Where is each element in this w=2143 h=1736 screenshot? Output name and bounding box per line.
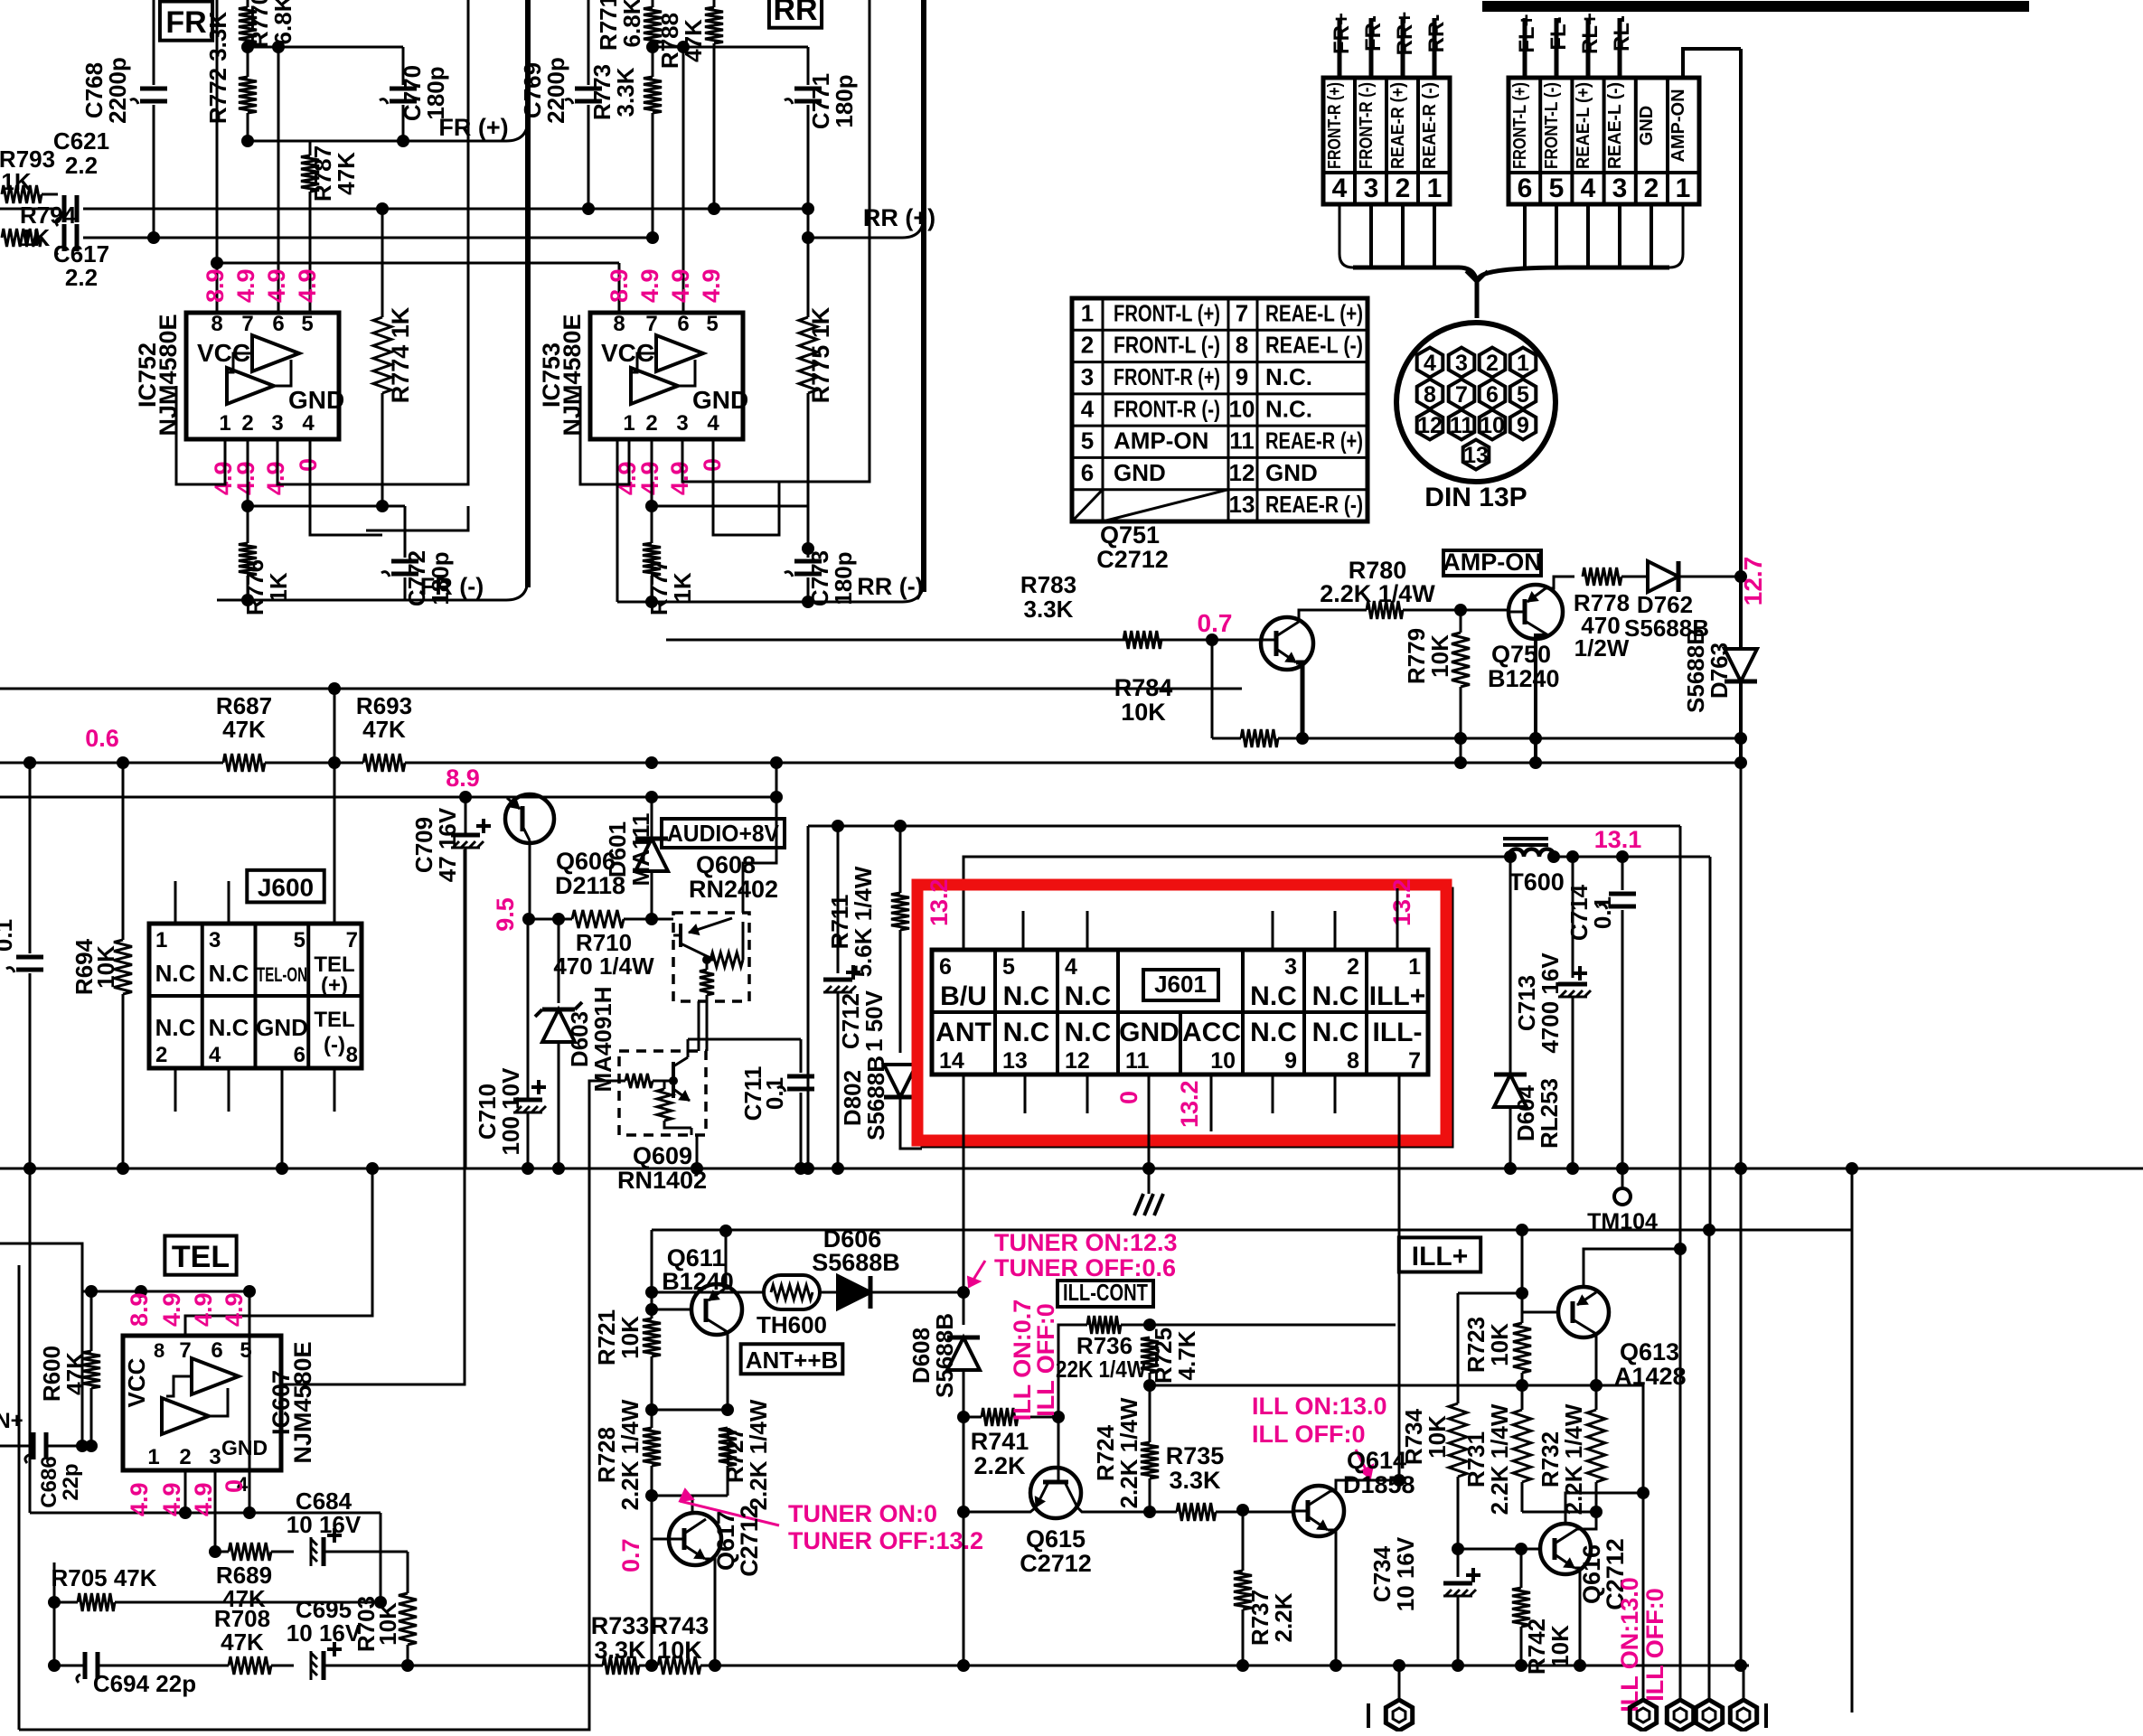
svg-text:GND: GND — [288, 386, 344, 414]
svg-text:DIN 13P: DIN 13P — [1424, 483, 1527, 512]
svg-text:47K: 47K — [333, 152, 360, 195]
svg-text:2: 2 — [155, 1043, 167, 1067]
wire — [248, 46, 403, 49]
svg-text:5: 5 — [1549, 174, 1565, 203]
wire — [153, 0, 155, 85]
label ILL-CONT — [1057, 1281, 1153, 1307]
svg-text:N.C: N.C — [1250, 1018, 1297, 1047]
resistor R779 10K — [1460, 610, 1462, 633]
svg-text:10K: 10K — [1486, 1323, 1513, 1366]
wire rail y882 8.9 — [0, 796, 776, 799]
svg-text:N+: N+ — [0, 1409, 23, 1433]
svg-text:4.7K: 4.7K — [1173, 1330, 1200, 1380]
svg-text:FRONT-R (+): FRONT-R (+) — [1114, 363, 1220, 390]
resistor R734 10K — [1457, 1293, 1460, 1403]
resistor R741 2.2K — [982, 1408, 1018, 1426]
inductor T600 — [1503, 837, 1548, 840]
pin 7 — [1449, 380, 1475, 409]
capacitor C695 10 16V — [311, 1642, 342, 1680]
pin 1 — [1510, 348, 1537, 378]
resistor R778 470 1/2W — [1583, 568, 1621, 586]
wire pin6 column IC753 — [682, 47, 685, 313]
svg-text:1K: 1K — [1, 168, 31, 195]
svg-text:TH600: TH600 — [757, 1311, 827, 1338]
wire collector line — [1546, 577, 1574, 588]
svg-text:470 1/4W: 470 1/4W — [553, 952, 654, 980]
capacitor C771 180p — [807, 47, 810, 85]
svg-text:0.7: 0.7 — [1198, 609, 1233, 637]
resistor R727 2.2K 1/4W — [719, 1428, 737, 1466]
svg-text:TUNER ON:12.3: TUNER ON:12.3 — [994, 1229, 1178, 1256]
resistor R743 10K — [658, 1656, 700, 1675]
svg-text:10K: 10K — [374, 1602, 401, 1646]
svg-text:ILL-: ILL- — [1373, 1018, 1423, 1047]
svg-text:22p: 22p — [59, 1463, 83, 1500]
wire Q616 emitter — [1574, 1568, 1580, 1666]
resistor R770 6.8K — [247, 0, 249, 7]
capacitor C686 22p — [0, 1445, 33, 1448]
svg-text:13.2: 13.2 — [1388, 878, 1415, 926]
node — [241, 135, 254, 147]
resistor R694 10K — [122, 763, 125, 940]
wire rail y1361 — [652, 1229, 1852, 1232]
svg-text:REAE-R (+): REAE-R (+) — [1388, 82, 1408, 169]
wire pin 5 — [1555, 18, 1559, 78]
svg-text:7: 7 — [1455, 382, 1468, 408]
svg-text:7: 7 — [1236, 299, 1248, 326]
svg-text:4: 4 — [209, 1043, 221, 1067]
diode D608 S5688B — [963, 1292, 965, 1325]
wire x1891 down — [1708, 1230, 1711, 1699]
svg-text:1: 1 — [147, 1445, 159, 1469]
resistor R735 3.3K — [1177, 1503, 1216, 1521]
svg-text:0.1: 0.1 — [1589, 896, 1616, 929]
svg-text:MA111: MA111 — [627, 813, 654, 887]
svg-text:13.2: 13.2 — [926, 878, 953, 926]
svg-text:4: 4 — [1065, 954, 1077, 980]
resistor R777 1K — [651, 506, 653, 543]
pin table — [1072, 298, 1368, 521]
wire — [249, 1291, 251, 1513]
svg-text:RR (-): RR (-) — [857, 573, 923, 600]
resistor R771 6.8K — [652, 0, 654, 7]
svg-text:2: 2 — [1081, 332, 1094, 359]
svg-text:4.9: 4.9 — [232, 461, 259, 495]
wire Q613 collector — [1595, 1334, 1598, 1385]
svg-text:TEL: TEL — [172, 1240, 230, 1274]
connector pin — [1696, 1700, 1722, 1731]
wire rail B / RR(+) return — [83, 237, 653, 239]
svg-text:2.2: 2.2 — [65, 264, 98, 291]
svg-text:47K: 47K — [221, 1628, 264, 1656]
svg-text:3: 3 — [209, 1445, 221, 1469]
svg-text:10: 10 — [1210, 1048, 1236, 1074]
svg-text:GND: GND — [1637, 106, 1657, 145]
svg-text:B1240: B1240 — [1488, 665, 1560, 692]
svg-text:4.9: 4.9 — [221, 1292, 248, 1327]
node tuner — [957, 1286, 970, 1299]
capacitor C772 180p — [404, 506, 407, 558]
svg-text:TUNER OFF:13.2: TUNER OFF:13.2 — [788, 1527, 983, 1554]
svg-text:8.9: 8.9 — [446, 765, 480, 792]
wire Q617 emitter — [705, 1559, 715, 1666]
svg-text:N.C: N.C — [155, 1014, 196, 1041]
svg-text:4: 4 — [1424, 351, 1436, 376]
transistor Q750 B1240 — [1509, 585, 1563, 639]
wire stubs below — [1024, 1074, 1027, 1113]
wire pin 3 — [1369, 18, 1374, 78]
svg-text:13: 13 — [1463, 443, 1489, 468]
svg-text:2.2: 2.2 — [65, 152, 98, 179]
svg-text:GND: GND — [256, 1014, 308, 1041]
connector pin — [1730, 1700, 1756, 1731]
wire ANT column lower — [963, 1417, 965, 1666]
capacitor C768 — [140, 87, 167, 91]
svg-text:10: 10 — [1229, 395, 1255, 422]
diode D606 S5688B — [838, 1276, 870, 1309]
svg-text:4: 4 — [302, 411, 315, 436]
wire TEL- column — [334, 1068, 336, 1112]
svg-text:8: 8 — [154, 1339, 164, 1362]
wire top link — [0, 1243, 82, 1446]
svg-text:1: 1 — [1081, 299, 1094, 326]
svg-text:ILL-CONT: ILL-CONT — [1063, 1279, 1148, 1306]
diode D604 RL253 — [1494, 1074, 1527, 1107]
svg-text:10K: 10K — [1424, 1415, 1451, 1459]
svg-text:3: 3 — [1081, 363, 1094, 390]
svg-text:2200p: 2200p — [542, 57, 569, 124]
connector pin — [1667, 1700, 1693, 1731]
capacitor C714 0.1 — [1616, 850, 1629, 863]
wire pin8 column IC752 — [216, 0, 219, 313]
svg-text:1 50V: 1 50V — [860, 990, 888, 1052]
svg-text:47K: 47K — [222, 716, 266, 743]
wire pin1 — [176, 386, 225, 484]
resistor R705 47K — [54, 1601, 78, 1604]
svg-text:1: 1 — [623, 411, 634, 436]
transistor Q617 C2712 — [669, 1513, 721, 1565]
capacitor C773 180p — [807, 549, 810, 558]
svg-text:AUDIO+8V: AUDIO+8V — [667, 820, 780, 847]
svg-text:ACC: ACC — [1182, 1018, 1241, 1047]
svg-text:4.9: 4.9 — [262, 461, 289, 495]
svg-text:R743: R743 — [651, 1612, 710, 1639]
resistor R703 10K — [407, 1552, 409, 1593]
svg-text:TUNER ON:0: TUNER ON:0 — [788, 1500, 937, 1527]
wire link C709 column down — [281, 849, 465, 1384]
svg-text:8: 8 — [1236, 332, 1248, 359]
label J601 — [1143, 970, 1218, 1000]
svg-text:FRONT-L (+): FRONT-L (+) — [1510, 82, 1530, 169]
node — [1454, 604, 1467, 616]
svg-text:4.9: 4.9 — [666, 461, 693, 495]
digital transistor Q609 RN1402 — [619, 1051, 706, 1135]
wire pins down — [184, 1470, 187, 1513]
svg-text:Q613: Q613 — [1620, 1338, 1679, 1365]
wire pin 1 — [1433, 18, 1437, 78]
capacitor C709 47 16V — [451, 833, 480, 838]
svg-text:R772 3.3K: R772 3.3K — [204, 12, 231, 125]
svg-text:10K: 10K — [92, 945, 119, 989]
svg-text:8: 8 — [346, 1043, 358, 1067]
svg-text:1: 1 — [1408, 954, 1421, 980]
label AUDIO+8V — [662, 819, 785, 848]
svg-text:6: 6 — [294, 1043, 305, 1067]
svg-text:R741: R741 — [971, 1428, 1029, 1455]
wire GND J600 — [281, 1068, 284, 1168]
resistor R772 3.3K — [247, 47, 249, 77]
svg-text:2: 2 — [645, 411, 657, 436]
bus RR — [921, 0, 926, 592]
svg-text:ILL ON:13.0: ILL ON:13.0 — [1616, 1577, 1643, 1713]
svg-text:RL+: RL+ — [1578, 13, 1603, 54]
svg-text:Q751: Q751 — [1100, 521, 1160, 549]
diode D762 S5688B — [1648, 561, 1678, 592]
wire TEL+ column — [334, 689, 336, 924]
svg-text:2: 2 — [1396, 174, 1411, 203]
wire — [1522, 1511, 1596, 1514]
wire y1533 to x1818 — [1524, 1385, 1643, 1699]
op-amp IC752 NJM4580E — [186, 313, 339, 439]
wire Q616 collector — [1577, 1512, 1596, 1529]
svg-text:ILL OFF:0: ILL OFF:0 — [1252, 1421, 1366, 1448]
connector pin — [1398, 1666, 1401, 1699]
svg-text:TEL: TEL — [314, 1008, 354, 1032]
svg-text:180p: 180p — [830, 551, 857, 605]
wire y1533 — [1150, 1384, 1524, 1387]
resistor R794 1K — [2, 229, 42, 247]
pin 13 — [1463, 440, 1490, 470]
wire — [29, 1168, 32, 1513]
svg-text:2.2K: 2.2K — [1270, 1592, 1297, 1642]
svg-text:FL+: FL+ — [1515, 14, 1539, 52]
svg-text:8.9: 8.9 — [126, 1292, 153, 1327]
wire emitter Q750 — [1536, 635, 1548, 763]
svg-text:2: 2 — [1486, 351, 1499, 376]
wire pin3 to input — [682, 0, 869, 482]
wire 13.1 — [1555, 856, 1710, 859]
label ANT++B — [741, 1344, 843, 1374]
svg-text:S5688B: S5688B — [1682, 628, 1709, 713]
capacitor C734 10 16V — [1457, 1549, 1460, 1577]
bottom rail — [416, 1665, 603, 1667]
svg-text:FRONT-L (-): FRONT-L (-) — [1542, 82, 1562, 169]
svg-text:N.C: N.C — [1312, 981, 1359, 1011]
wire pin 4 — [1586, 18, 1591, 78]
svg-text:3: 3 — [676, 411, 688, 436]
svg-text:GND: GND — [221, 1436, 268, 1459]
wire — [381, 1551, 408, 1553]
svg-text:5: 5 — [1517, 382, 1529, 408]
capacitor C712 1 50V — [832, 820, 844, 832]
transistor Q611 B1240 — [691, 1284, 742, 1335]
svg-text:N.C: N.C — [1312, 1018, 1359, 1047]
svg-text:2.2K 1/4W: 2.2K 1/4W — [616, 1399, 644, 1510]
svg-text:100 10V: 100 10V — [497, 1067, 524, 1156]
diode D601 MA111 — [651, 797, 653, 839]
wires to DIN bus — [1523, 204, 1527, 267]
node — [645, 1489, 658, 1502]
svg-text:3: 3 — [1612, 174, 1628, 203]
svg-text:AMP-ON: AMP-ON — [1114, 427, 1208, 455]
svg-text:3.3K: 3.3K — [612, 67, 639, 117]
connector block left (pins 4..1) — [1323, 78, 1450, 204]
svg-text:C769: C769 — [519, 62, 546, 118]
svg-text:REAE-L (+): REAE-L (+) — [1265, 299, 1363, 326]
capacitor C711 0.1 — [800, 1039, 803, 1073]
svg-text:2.2K 1/4W: 2.2K 1/4W — [1486, 1403, 1513, 1515]
wire ACC stub — [1210, 1074, 1213, 1131]
svg-text:180p: 180p — [422, 66, 449, 119]
svg-text:REAE-R (-): REAE-R (-) — [1265, 491, 1363, 518]
svg-text:ILL ON:13.0: ILL ON:13.0 — [1252, 1393, 1387, 1420]
svg-text:D763: D763 — [1706, 643, 1733, 699]
svg-text:FR-: FR- — [1361, 15, 1386, 52]
wire pin8 column IC753 — [618, 263, 621, 313]
svg-text:R775 1K: R775 1K — [807, 306, 834, 403]
wire pin 2 — [1401, 18, 1405, 78]
svg-text:12: 12 — [1065, 1048, 1090, 1074]
svg-text:10 16V: 10 16V — [287, 1619, 362, 1647]
label ILL+ — [1399, 1237, 1480, 1272]
wire GND column — [1148, 1074, 1151, 1168]
resistor R774 1K — [381, 209, 384, 317]
svg-text:C768: C768 — [80, 62, 108, 118]
svg-text:S5688B: S5688B — [931, 1313, 958, 1398]
svg-text:TUNER OFF:0.6: TUNER OFF:0.6 — [994, 1254, 1176, 1281]
svg-text:0.6: 0.6 — [85, 725, 119, 752]
svg-text:REAE-L (-): REAE-L (-) — [1265, 332, 1363, 359]
svg-text:4.9: 4.9 — [190, 1292, 217, 1327]
svg-text:1K: 1K — [669, 572, 696, 602]
capacitor 0.1 left — [29, 763, 32, 953]
resistor R728 2.2K 1/4W — [643, 1428, 661, 1466]
svg-text:2200p: 2200p — [104, 57, 131, 124]
svg-text:REAE-L (-): REAE-L (-) — [1605, 82, 1625, 169]
wire to Q617 — [691, 1496, 694, 1513]
svg-text:6: 6 — [939, 954, 952, 980]
connector J600 — [247, 870, 324, 903]
node — [645, 1659, 658, 1672]
node — [241, 41, 254, 53]
svg-text:6: 6 — [1518, 174, 1533, 203]
svg-text:GND: GND — [1119, 1018, 1180, 1047]
svg-text:T600: T600 — [1509, 868, 1565, 896]
svg-text:2.2K 1/4W: 2.2K 1/4W — [1320, 580, 1435, 607]
svg-text:5: 5 — [301, 312, 313, 336]
svg-text:FRONT-R (-): FRONT-R (-) — [1357, 82, 1377, 169]
svg-text:4: 4 — [1081, 395, 1095, 422]
wire stubs below — [174, 1068, 177, 1112]
svg-text:4.9: 4.9 — [263, 268, 290, 303]
svg-text:4: 4 — [1581, 174, 1596, 203]
svg-text:6: 6 — [272, 312, 284, 336]
svg-text:FL-: FL- — [1546, 16, 1571, 50]
svg-text:N.C.: N.C. — [1265, 363, 1312, 390]
svg-text:N.C: N.C — [1065, 981, 1112, 1011]
svg-text:5: 5 — [240, 1338, 251, 1363]
svg-text:8: 8 — [211, 312, 222, 336]
svg-text:5: 5 — [294, 928, 305, 952]
pin 2 — [1480, 348, 1506, 378]
resistor R733 3.3K — [603, 1656, 639, 1675]
svg-text:2: 2 — [1347, 954, 1359, 980]
wire RR(+) output — [808, 237, 902, 239]
bus top bar — [1482, 1, 2029, 12]
pin 8 — [1417, 380, 1443, 409]
svg-text:6: 6 — [677, 312, 689, 336]
node — [23, 756, 36, 769]
node — [709, 1659, 721, 1672]
wire — [366, 506, 468, 530]
svg-text:D1858: D1858 — [1343, 1471, 1415, 1498]
resistor R693 47K — [363, 754, 405, 772]
svg-text:0.1: 0.1 — [0, 919, 17, 952]
label RR — [769, 0, 822, 28]
tick — [1764, 1703, 1768, 1728]
svg-text:1: 1 — [1427, 174, 1443, 203]
resistor R773 3.3K — [652, 47, 654, 77]
svg-text:ILL+: ILL+ — [1369, 981, 1426, 1011]
svg-text:RR+: RR+ — [1393, 12, 1417, 56]
label FR — [160, 2, 212, 41]
resistor R780 2.2K 1/4W — [1367, 601, 1403, 619]
resistor R711 5.6K 1/4W — [894, 820, 907, 832]
resistor R737 2.2K — [1242, 1512, 1245, 1571]
wire rail A — [83, 208, 809, 211]
svg-text:Q609: Q609 — [633, 1142, 692, 1169]
svg-text:10 16V: 10 16V — [1392, 1536, 1419, 1611]
svg-text:4.9: 4.9 — [667, 268, 694, 303]
wire pin 4 — [1338, 18, 1342, 78]
svg-text:R705 47K: R705 47K — [51, 1564, 156, 1591]
wire AMP-ON to rail 12.7 — [1683, 49, 1741, 78]
svg-text:AMP-ON: AMP-ON — [1443, 549, 1542, 576]
svg-text:GND: GND — [1265, 459, 1318, 486]
svg-text:5: 5 — [706, 312, 718, 336]
op-amp IC753 NJM4580E — [590, 313, 743, 439]
svg-text:GND: GND — [1114, 459, 1166, 486]
svg-text:J600: J600 — [258, 873, 314, 901]
wire pin1 — [580, 386, 629, 484]
svg-text:9.5: 9.5 — [492, 897, 519, 932]
wire rail y844 — [0, 762, 223, 765]
svg-text:9: 9 — [1284, 1048, 1297, 1074]
wire base line TH600 — [645, 1286, 658, 1299]
wire C711 link — [699, 1038, 801, 1041]
svg-text:1: 1 — [219, 411, 230, 436]
svg-text:RL-: RL- — [1610, 15, 1634, 52]
svg-text:1: 1 — [1517, 351, 1529, 376]
wire collector — [725, 1231, 728, 1288]
wire pin 3 — [1618, 18, 1622, 78]
wire emitter Q611 — [727, 1332, 729, 1410]
wire Q616 collector to right — [1565, 1493, 1643, 1524]
svg-text:12.7: 12.7 — [1739, 557, 1767, 606]
svg-text:4.9: 4.9 — [698, 268, 725, 303]
wire Q606 collector to Q608 — [528, 918, 540, 921]
svg-text:10K: 10K — [1426, 634, 1453, 678]
node — [1516, 1224, 1528, 1236]
resistor R600 47K — [90, 1291, 93, 1351]
svg-text:B/U: B/U — [940, 981, 987, 1011]
node — [1052, 1411, 1065, 1423]
svg-text:47K: 47K — [362, 716, 406, 743]
wire rail y914 — [808, 825, 1680, 828]
svg-text:N.C: N.C — [1003, 981, 1050, 1011]
svg-text:S5688B: S5688B — [812, 1249, 900, 1276]
wire emitter return line — [1302, 737, 1741, 740]
